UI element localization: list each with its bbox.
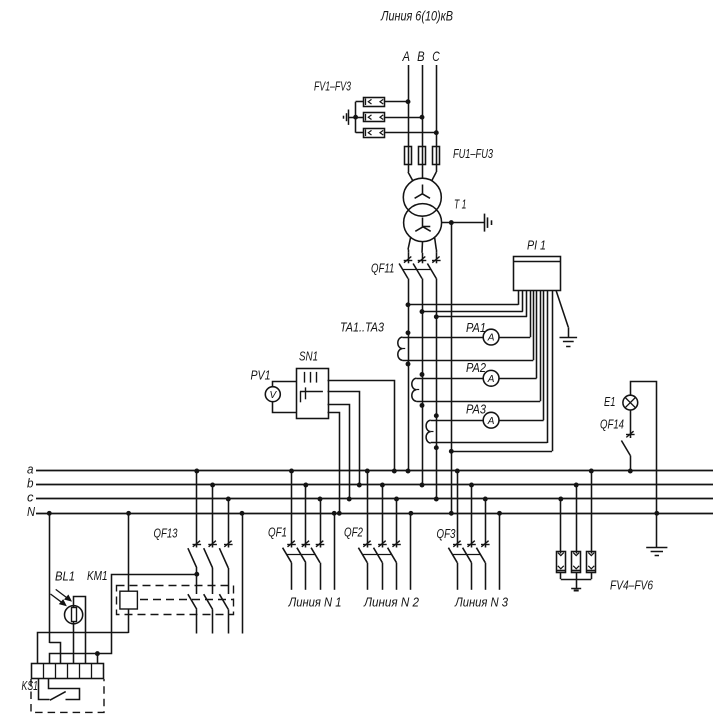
svg-text:FV4–FV6: FV4–FV6 xyxy=(610,578,654,593)
svg-text:T 1: T 1 xyxy=(454,197,467,212)
svg-text:SN1: SN1 xyxy=(299,349,318,364)
svg-text:Линия N 3: Линия N 3 xyxy=(454,595,509,610)
svg-text:c: c xyxy=(27,490,34,505)
svg-text:KS1: KS1 xyxy=(22,678,39,693)
svg-text:PA3: PA3 xyxy=(466,402,487,417)
svg-text:A: A xyxy=(487,416,495,427)
svg-text:PV1: PV1 xyxy=(251,368,271,383)
svg-text:C: C xyxy=(432,48,440,64)
svg-text:QF11: QF11 xyxy=(371,261,394,276)
svg-text:PA1: PA1 xyxy=(466,320,486,335)
svg-text:b: b xyxy=(27,476,34,491)
svg-text:QF1: QF1 xyxy=(268,525,287,540)
svg-text:QF2: QF2 xyxy=(344,525,364,540)
svg-text:BL1: BL1 xyxy=(55,569,75,584)
svg-text:E1: E1 xyxy=(604,394,616,409)
svg-text:QF14: QF14 xyxy=(600,417,624,432)
svg-text:PI 1: PI 1 xyxy=(527,238,546,253)
svg-text:A: A xyxy=(487,333,495,344)
svg-text:FU1–FU3: FU1–FU3 xyxy=(453,146,494,161)
svg-text:KM1: KM1 xyxy=(87,568,108,583)
svg-text:Линия 6(10)кВ: Линия 6(10)кВ xyxy=(380,9,453,24)
svg-text:a: a xyxy=(27,462,34,477)
svg-text:Линия N 2: Линия N 2 xyxy=(363,595,420,610)
svg-text:PA2: PA2 xyxy=(466,360,487,375)
svg-text:FV1–FV3: FV1–FV3 xyxy=(314,79,352,94)
svg-text:N: N xyxy=(27,504,36,519)
svg-text:TA1..TA3: TA1..TA3 xyxy=(340,320,385,335)
svg-text:QF13: QF13 xyxy=(154,525,179,540)
svg-text:A: A xyxy=(487,374,495,385)
svg-text:QF3: QF3 xyxy=(437,526,457,541)
svg-text:Линия N 1: Линия N 1 xyxy=(288,595,342,610)
svg-text:B: B xyxy=(417,48,425,64)
svg-text:A: A xyxy=(402,48,410,64)
